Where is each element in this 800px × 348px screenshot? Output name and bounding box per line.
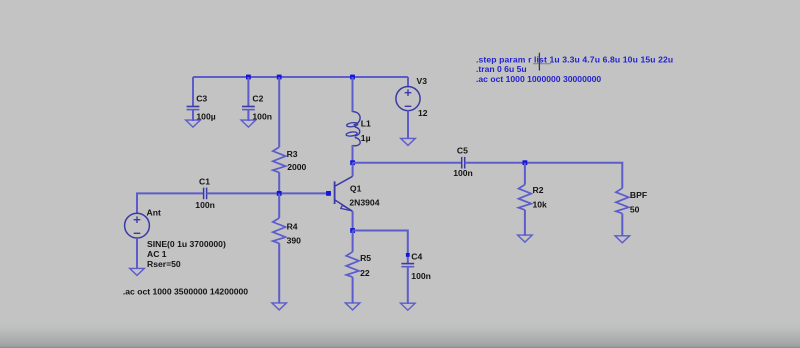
directive .tran	[476, 64, 527, 74]
resistor R3	[273, 147, 307, 172]
wire V3 top lead	[407, 77, 409, 88]
resistor BPF	[616, 188, 647, 214]
junction emitter node	[350, 228, 355, 233]
svg-text:12: 12	[418, 108, 428, 118]
ground below C2	[241, 120, 256, 127]
svg-text:390: 390	[287, 236, 302, 246]
svg-text:V3: V3	[417, 76, 428, 86]
ground below C3	[186, 120, 201, 127]
directive .step param	[476, 54, 673, 64]
ground below Ant	[130, 268, 145, 275]
svg-text:C3: C3	[196, 93, 207, 103]
ground below V3	[401, 138, 416, 145]
transistor Q1	[335, 176, 380, 211]
junction Q1 base pin	[326, 191, 331, 196]
wire collector node to C5	[353, 162, 462, 164]
svg-text:C4: C4	[411, 252, 422, 262]
junction rail/L1	[350, 75, 355, 80]
wire R5 top lead	[352, 231, 354, 252]
wire V3 to ground	[407, 111, 409, 139]
voltage source V3	[396, 76, 428, 118]
svg-text:SINE(0 1u 3700000): SINE(0 1u 3700000)	[147, 239, 226, 249]
junction rail/R3	[277, 75, 282, 80]
wire R2 to ground	[524, 210, 526, 236]
wire R4 to ground	[278, 243, 280, 303]
svg-text:Ant: Ant	[147, 208, 161, 218]
capacitor C4	[401, 252, 430, 281]
svg-text:R2: R2	[533, 185, 544, 195]
ground below R2	[518, 235, 533, 242]
ground below R4	[272, 303, 287, 310]
resistor R4	[273, 218, 301, 246]
junction C5 net / R2	[523, 160, 528, 165]
ground below R5	[345, 303, 360, 310]
wire R2 top lead	[524, 163, 526, 185]
wire Ant to C1	[137, 193, 204, 213]
wire Q1 emitter lead	[352, 211, 354, 230]
capacitor C5	[453, 146, 473, 178]
wire C3 to ground	[192, 110, 194, 121]
capacitor C3	[187, 93, 216, 121]
svg-text:100n: 100n	[411, 271, 431, 281]
svg-text:Rser=50: Rser=50	[147, 259, 181, 269]
svg-text:C5: C5	[457, 146, 468, 156]
ground below BPF	[615, 236, 630, 243]
svg-text:2000: 2000	[287, 162, 306, 172]
resistor R5	[346, 252, 371, 278]
svg-text:R3: R3	[287, 149, 298, 159]
svg-text:2N3904: 2N3904	[349, 197, 379, 207]
svg-text:Q1: Q1	[350, 183, 362, 193]
svg-text:.ac oct 1000 1000000 30000000: .ac oct 1000 1000000 30000000	[476, 74, 601, 84]
junction base/R3/R4	[277, 191, 282, 196]
wire L1 to collector node	[352, 145, 354, 163]
junction rail/C2	[246, 75, 251, 80]
svg-text:AC 1: AC 1	[147, 249, 167, 259]
resistor R2	[519, 185, 548, 210]
voltage source Ant	[125, 208, 226, 269]
wire C2 to ground	[247, 110, 249, 121]
svg-text:L1: L1	[361, 118, 371, 128]
svg-text:50: 50	[630, 205, 640, 215]
svg-text:R5: R5	[360, 253, 371, 263]
capacitor C2	[242, 93, 272, 121]
junction C4 top pin	[406, 253, 410, 257]
svg-text:1µ: 1µ	[361, 133, 371, 143]
wire R4 top lead	[278, 193, 280, 218]
directive .ac oct (blue)	[476, 74, 601, 84]
ground below C4	[401, 303, 416, 310]
svg-text:R4: R4	[287, 221, 298, 231]
svg-text:10k: 10k	[533, 199, 548, 209]
directive .ac oct (black)	[123, 286, 248, 296]
wire C2 top lead	[247, 77, 249, 107]
wire R3 to base node	[278, 172, 280, 193]
svg-text:100n: 100n	[453, 168, 473, 178]
wire C1 to Q1 base	[207, 192, 331, 194]
svg-text:BPF: BPF	[630, 190, 647, 200]
status bar	[0, 320, 800, 348]
wire C5 to BPF corner	[465, 163, 623, 189]
junction collector node	[350, 160, 355, 165]
svg-text:C1: C1	[199, 177, 210, 187]
wire R3 top lead	[278, 77, 280, 147]
inductor L1	[346, 112, 371, 146]
wire top supply rail	[193, 76, 408, 78]
mouse text caret cursor	[533, 53, 551, 71]
svg-text:22: 22	[360, 268, 370, 278]
svg-text:C2: C2	[252, 93, 263, 103]
svg-text:.step param r list 1u 3.3u 4.7: .step param r list 1u 3.3u 4.7u 6.8u 10u…	[476, 54, 673, 64]
wire BPF to ground	[621, 214, 623, 237]
wire Q1 collector lead	[352, 163, 354, 177]
wire L1 top lead	[352, 77, 354, 112]
wire C4 to ground	[407, 267, 409, 304]
capacitor C1	[195, 177, 215, 211]
wire emitter node to C4	[353, 231, 408, 264]
wire R5 to ground	[352, 277, 354, 304]
svg-text:.ac oct 1000 3500000 14200000: .ac oct 1000 3500000 14200000	[123, 286, 248, 296]
svg-text:100n: 100n	[195, 200, 215, 210]
svg-text:.tran 0 6u 5u: .tran 0 6u 5u	[476, 64, 527, 74]
wire Ant to ground	[136, 238, 138, 269]
wire C3 top lead	[192, 77, 194, 107]
